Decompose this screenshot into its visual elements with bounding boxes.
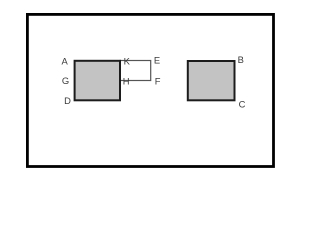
svg-text:D: D — [64, 95, 71, 106]
svg-text:G: G — [62, 75, 69, 86]
svg-text:H: H — [123, 75, 130, 86]
svg-text:F: F — [155, 75, 161, 86]
left gray square ADGK — [75, 61, 120, 101]
svg-text:B: B — [238, 54, 244, 65]
right gray square BC — [188, 61, 235, 100]
small rectangle KEFH — [120, 61, 151, 81]
svg-text:C: C — [239, 98, 246, 109]
svg-text:A: A — [61, 56, 68, 67]
svg-text:E: E — [154, 54, 160, 65]
outer border frame — [27, 14, 273, 166]
svg-text:K: K — [124, 55, 131, 66]
